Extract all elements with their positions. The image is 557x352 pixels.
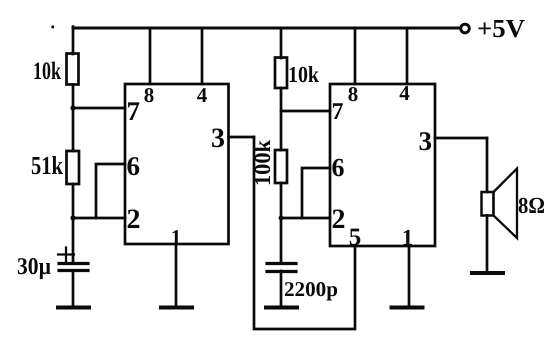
svg-text:30µ: 30µ (17, 254, 51, 280)
speaker LS1 driver box (482, 192, 494, 216)
wire pin 8 U1 (149, 28, 152, 84)
op-amp U2 555 timer body (330, 84, 435, 246)
svg-text:+5V: +5V (477, 14, 525, 43)
ground under C2 (266, 306, 297, 310)
svg-text:3: 3 (211, 123, 225, 154)
wire C1 to ground (72, 271, 75, 306)
svg-text:8: 8 (144, 83, 155, 107)
node junction pin7 U1 (70, 105, 75, 110)
wire pin3 U2 to speaker (486, 138, 489, 192)
resistor R1 10k (67, 54, 79, 85)
wire R1 to R2 (72, 85, 75, 152)
svg-text:2200p: 2200p (284, 277, 338, 301)
wire pin 6 U1 (96, 164, 125, 218)
capacitor C2 2200p plates (267, 262, 296, 265)
svg-text:10k: 10k (33, 58, 61, 85)
resistor R3 10k (275, 58, 287, 89)
wire pin 6 U2 (302, 168, 330, 218)
capacitor C1 polarity plus sign (58, 248, 74, 262)
wire C2 to ground (280, 271, 283, 306)
capacitor C1 30u plates (59, 262, 88, 265)
resistor R4 100k (275, 150, 287, 183)
svg-text:10k: 10k (288, 62, 319, 87)
node junction pin2 U2 (279, 216, 284, 221)
wire pin3 U1 to pin5 U2 (254, 137, 355, 329)
svg-text:2: 2 (127, 204, 141, 235)
speaker LS1 cone (494, 169, 518, 239)
svg-text:100k: 100k (250, 140, 275, 186)
svg-text:2: 2 (332, 204, 346, 235)
svg-text:51k: 51k (31, 151, 63, 180)
wire R3 to R4 (280, 88, 283, 150)
ground under speaker (472, 271, 503, 275)
stray speck (52, 26, 55, 29)
ground under C1 (58, 306, 89, 310)
svg-text:7: 7 (332, 99, 344, 125)
wire R4 to C2 (280, 183, 283, 263)
wire to pin 7 U2 (281, 110, 330, 113)
wire pin 3 U1 (229, 136, 255, 139)
svg-text:6: 6 (332, 153, 345, 182)
wire to pin 7 U1 (73, 107, 125, 110)
svg-text:8: 8 (348, 82, 359, 106)
wire R2 to C1 (72, 184, 75, 263)
wire left branch top (72, 27, 75, 54)
svg-text:8Ω: 8Ω (518, 193, 545, 218)
wire top +5V rail (73, 27, 459, 30)
op-amp U1 555 timer body (125, 84, 229, 244)
node junction pin2 U1 (70, 215, 75, 220)
svg-text:3: 3 (419, 126, 433, 156)
wire pin 1 U1 to ground (175, 244, 178, 306)
wire pin 8 U2 (354, 28, 357, 84)
wire pin 3 U2 (435, 137, 487, 140)
terminal +5V circle (461, 24, 470, 33)
wire to pin 2 U2 (281, 217, 330, 220)
ground under pin1 U2 (392, 306, 423, 310)
svg-text:6: 6 (127, 151, 141, 181)
wire speaker to ground (486, 216, 489, 272)
svg-text:7: 7 (127, 96, 141, 126)
wire pin 4 U1 (201, 28, 204, 84)
wire to pin 2 U1 (73, 217, 125, 220)
svg-text:4: 4 (399, 81, 410, 105)
wire pin 4 U2 (406, 28, 409, 84)
wire middle branch top (280, 28, 283, 58)
ground under pin1 U1 (161, 306, 192, 310)
wire pin 1 U2 to ground (408, 246, 411, 306)
svg-text:4: 4 (197, 83, 208, 107)
resistor R2 51k (67, 151, 80, 184)
svg-text:1: 1 (402, 225, 414, 250)
svg-text:5: 5 (349, 224, 362, 251)
